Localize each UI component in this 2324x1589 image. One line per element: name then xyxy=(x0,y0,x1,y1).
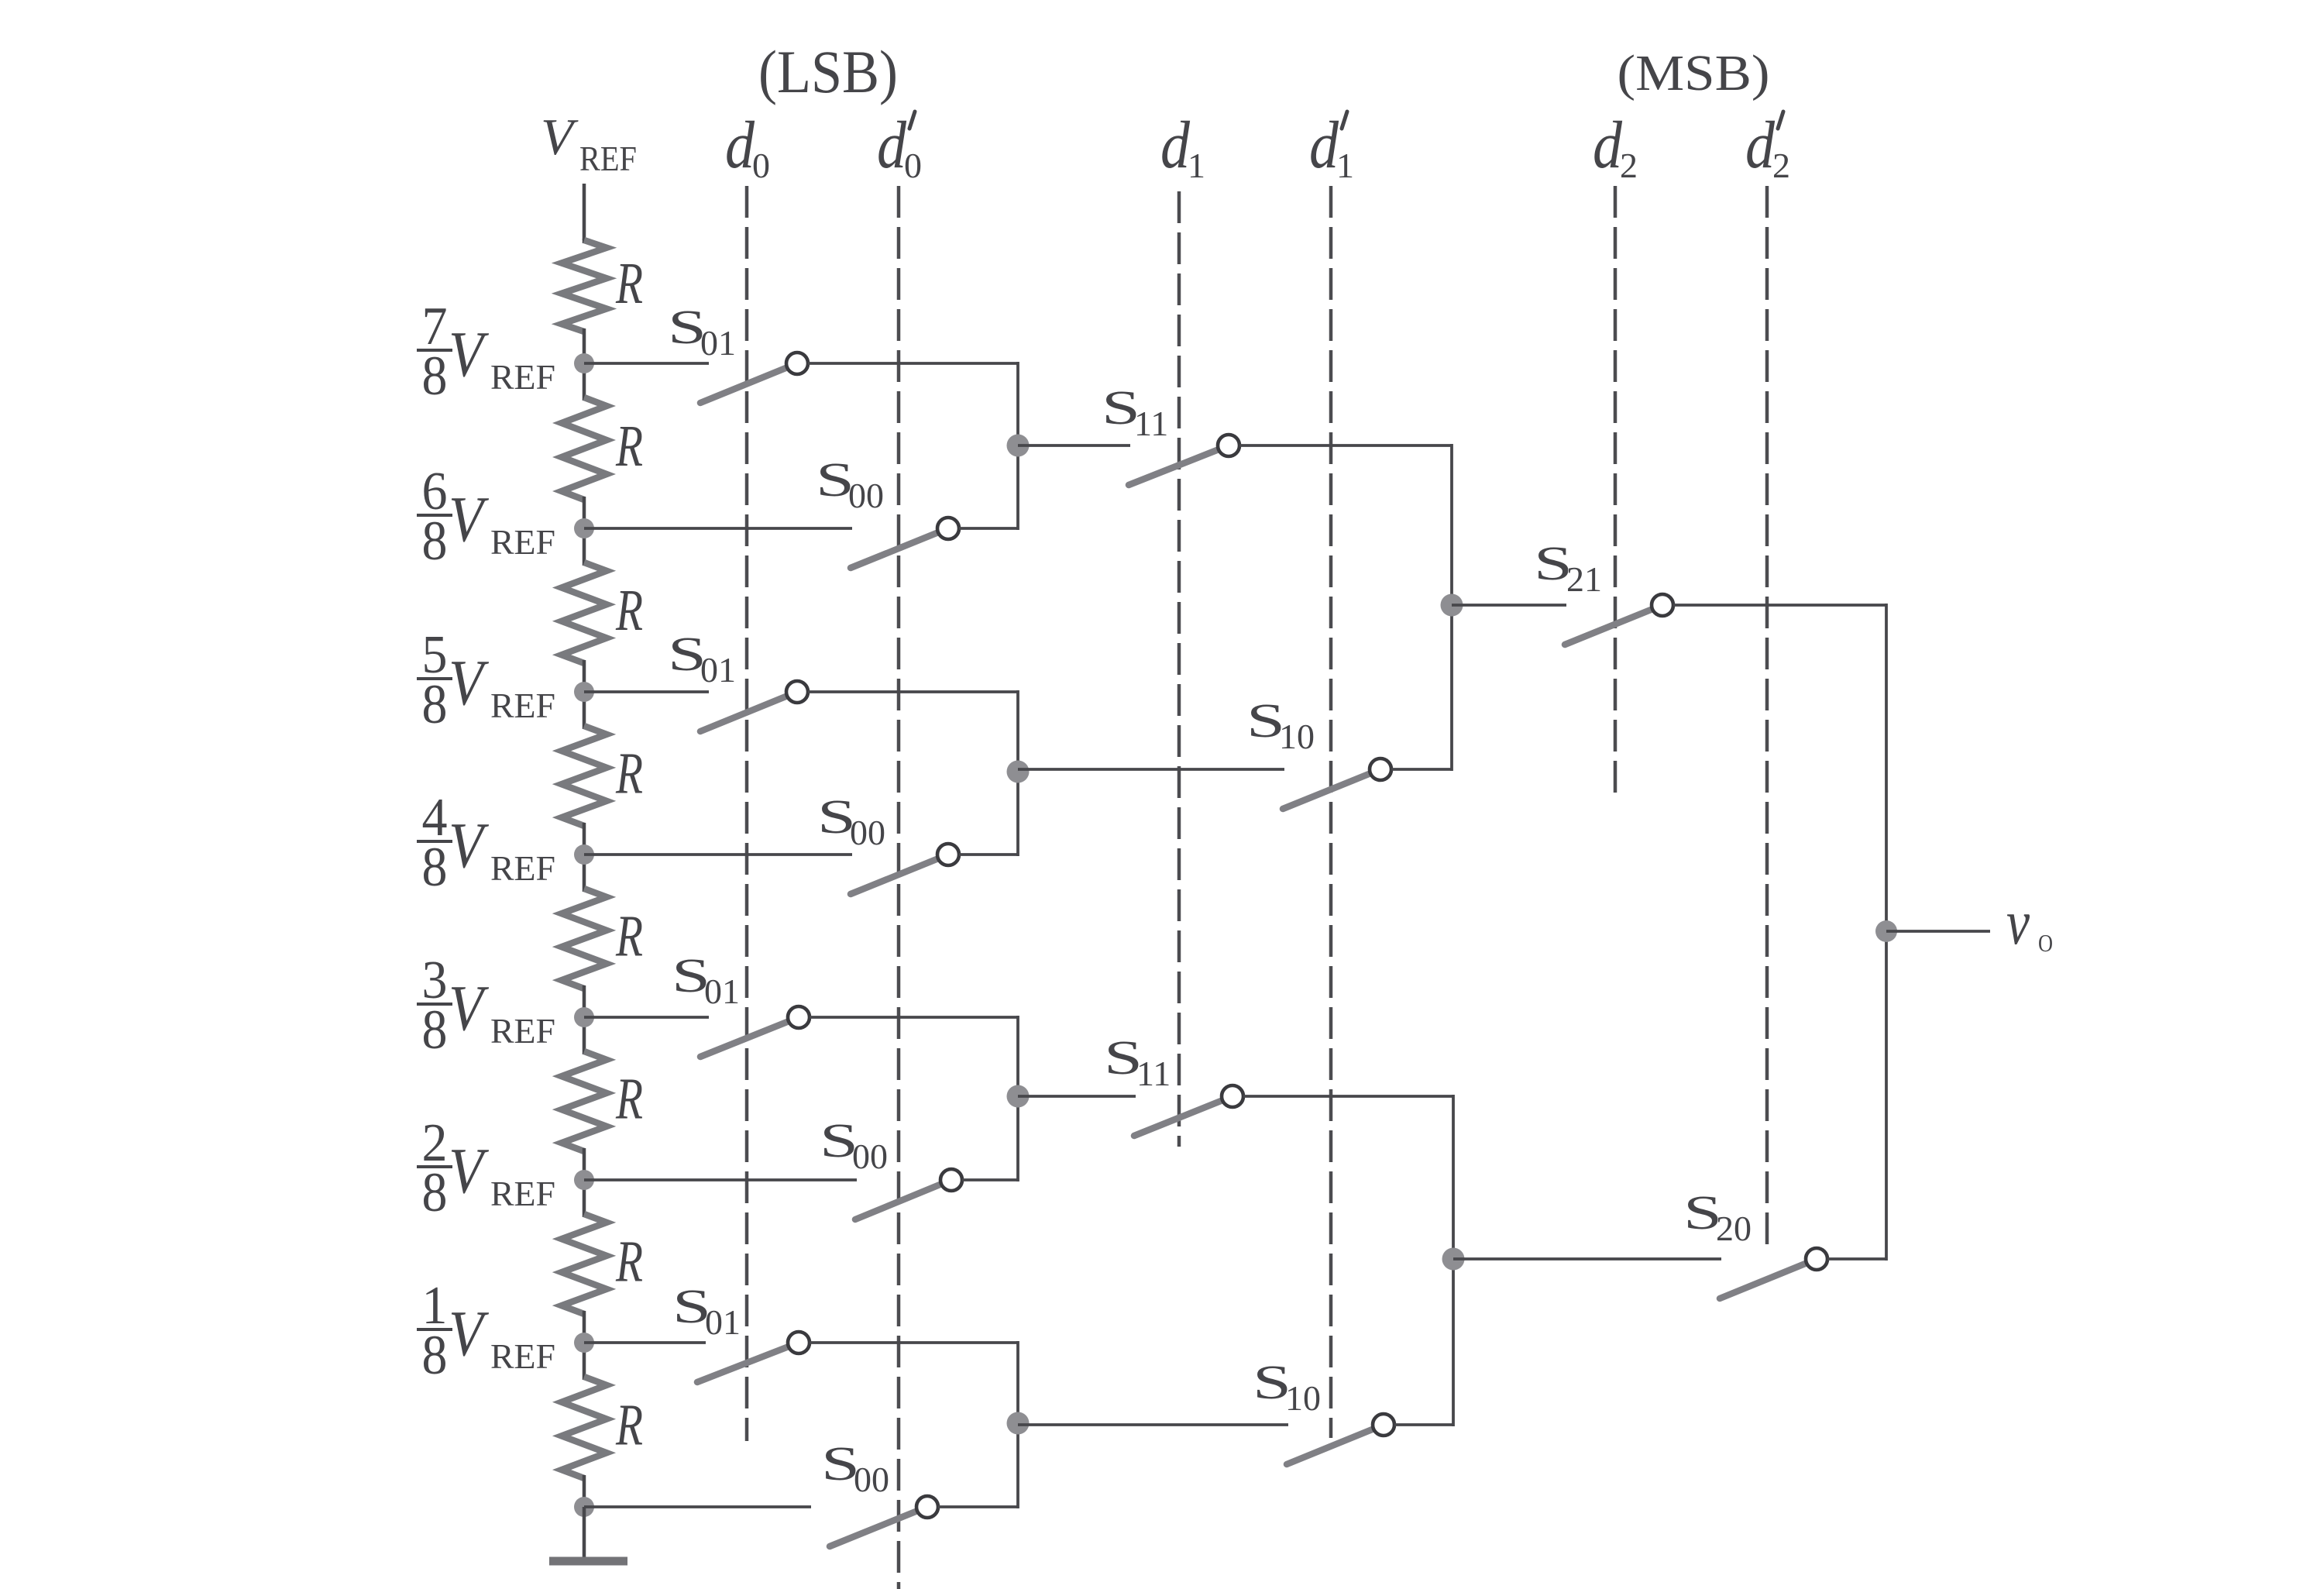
wire S11 output (top) xyxy=(1239,444,1452,447)
wire pair 4 bus xyxy=(1016,1341,1019,1508)
wire tap to S00 (pair 1) xyxy=(584,527,852,530)
svg-text:8: 8 xyxy=(422,510,448,572)
svg-text:R: R xyxy=(615,1393,643,1458)
switch S20 xyxy=(1720,1264,1806,1298)
wire S00 output (pair 4) xyxy=(938,1505,1018,1508)
svg-text:REF: REF xyxy=(579,139,637,178)
resistor R5 (value R) xyxy=(583,855,586,892)
svg-text:21: 21 xyxy=(1566,559,1602,599)
svg-text:8: 8 xyxy=(422,1324,448,1386)
wire S10 output (bottom) xyxy=(1394,1423,1453,1426)
svg-text:REF: REF xyxy=(490,1011,555,1051)
svg-text:11: 11 xyxy=(1134,404,1168,443)
wire S21 output xyxy=(1673,604,1886,607)
wire S20 output xyxy=(1827,1257,1886,1261)
wire stage1 top bus xyxy=(1450,444,1453,771)
switch S01 (pair 3) xyxy=(700,1022,788,1057)
svg-text:V: V xyxy=(449,647,490,719)
switch S10 (bottom) xyxy=(1287,1429,1373,1464)
svg-text:8: 8 xyxy=(422,345,448,407)
switch S21 xyxy=(1565,610,1652,645)
switch S01 (pair 1) xyxy=(700,368,786,403)
wire tap 7/8 to S01 (pair 1) xyxy=(584,362,709,365)
svg-text:10: 10 xyxy=(1285,1378,1321,1418)
control line d0' (dashed) xyxy=(897,186,901,1589)
wire pair1 junction to S11 (top) xyxy=(1018,444,1130,447)
node 1/8 V_REF tap xyxy=(574,1333,594,1353)
svg-text:V: V xyxy=(449,318,490,390)
svg-text:00: 00 xyxy=(852,1137,888,1176)
control line d1' (dashed) xyxy=(1329,186,1333,1438)
svg-text:v: v xyxy=(2006,886,2030,958)
resistor R1 (value R) xyxy=(583,239,586,243)
svg-text:01: 01 xyxy=(700,323,736,363)
switch S10 (top) xyxy=(1283,774,1370,809)
wire S01 output (pair 2) xyxy=(808,690,1018,693)
node 7/8 V_REF tap xyxy=(574,353,594,373)
node 5/8 V_REF tap xyxy=(574,682,594,702)
resistor R4 (value R) xyxy=(583,692,586,729)
wire stage1 bottom bus xyxy=(1452,1095,1455,1426)
svg-text:d: d xyxy=(1160,107,1190,182)
wire tap 1/8 to S01 (pair 4) xyxy=(584,1341,706,1344)
svg-text:20: 20 xyxy=(1716,1209,1752,1248)
wire V_REF feed xyxy=(583,184,586,240)
junction stage1 top xyxy=(1441,594,1463,617)
svg-text:01: 01 xyxy=(700,650,736,690)
switch S00 (pair 4) xyxy=(830,1512,916,1546)
control line d1 (dashed) xyxy=(1177,191,1181,1147)
control line d2' (dashed) xyxy=(1765,186,1769,1249)
switch S00 (pair 2) xyxy=(851,859,937,894)
svg-text:REF: REF xyxy=(490,1336,555,1376)
svg-text:11: 11 xyxy=(1136,1054,1171,1093)
wire stage1 bottom junction to S20 xyxy=(1453,1257,1721,1261)
wire S01 output (pair 3) xyxy=(810,1016,1018,1019)
svg-text:d: d xyxy=(725,107,755,182)
junction pair 1 xyxy=(1007,435,1030,457)
wire tap 3/8 to S01 (pair 3) xyxy=(584,1016,709,1019)
switch S01 (pair 2) xyxy=(700,696,786,731)
junction pair 3 xyxy=(1007,1085,1030,1108)
svg-text:V: V xyxy=(449,1135,490,1207)
node 3/8 V_REF tap xyxy=(574,1007,594,1027)
svg-text:V: V xyxy=(541,108,579,166)
svg-text:V: V xyxy=(449,810,490,882)
control line d0 (dashed) xyxy=(745,186,749,1441)
junction stage1 bottom xyxy=(1442,1248,1465,1271)
wire pair2 junction to S10 (top) xyxy=(1018,768,1284,771)
svg-text:R: R xyxy=(615,1067,643,1132)
node 2/8 V_REF tap xyxy=(574,1170,594,1190)
svg-text:REF: REF xyxy=(490,686,555,725)
wire pair 1 bus xyxy=(1016,362,1019,530)
svg-text:REF: REF xyxy=(490,522,555,562)
svg-text:V: V xyxy=(449,972,490,1044)
resistor R2 (value R) xyxy=(583,363,586,401)
svg-text:R: R xyxy=(615,251,643,316)
svg-text:d: d xyxy=(1593,107,1622,182)
junction pair 2 xyxy=(1007,761,1030,783)
wire tap 5/8 to S01 (pair 2) xyxy=(584,690,709,693)
svg-text:01: 01 xyxy=(704,972,740,1011)
svg-text:d: d xyxy=(1745,107,1775,182)
svg-text:8: 8 xyxy=(422,836,448,898)
wire pair3 junction to S11 (bottom) xyxy=(1018,1095,1136,1098)
svg-text:R: R xyxy=(615,578,643,643)
svg-text:2: 2 xyxy=(1620,146,1638,185)
svg-text:8: 8 xyxy=(422,1161,448,1223)
svg-text:d: d xyxy=(1309,107,1339,182)
wire S11 output (bottom) xyxy=(1243,1095,1453,1098)
junction pair 4 xyxy=(1007,1412,1030,1435)
svg-text:O: O xyxy=(2038,929,2053,957)
wire tap to S00 (pair 2) xyxy=(584,853,852,856)
wire pair 3 bus xyxy=(1016,1016,1019,1181)
svg-text:8: 8 xyxy=(422,673,448,735)
svg-text:0: 0 xyxy=(752,146,770,185)
svg-text:REF: REF xyxy=(490,1174,555,1213)
wire pair 2 bus xyxy=(1016,690,1019,856)
resistor R3 (value R) xyxy=(583,528,586,566)
svg-text:2: 2 xyxy=(1772,146,1790,185)
svg-text:R: R xyxy=(615,741,643,807)
svg-text:(MSB): (MSB) xyxy=(1618,45,1770,101)
wire S10 output (top) xyxy=(1391,768,1452,771)
ground xyxy=(583,1507,586,1559)
wire vO stub xyxy=(1886,930,1990,933)
svg-text:REF: REF xyxy=(490,357,555,397)
wire tap to S00 (pair 3) xyxy=(584,1178,857,1181)
node vO xyxy=(1875,920,1897,942)
svg-text:V: V xyxy=(449,483,490,555)
wire S01 output (pair 1) xyxy=(808,362,1018,365)
svg-text:10: 10 xyxy=(1279,717,1315,756)
svg-text:R: R xyxy=(615,414,643,479)
svg-text:8: 8 xyxy=(422,999,448,1061)
resistor R6 (value R) xyxy=(583,1017,586,1054)
svg-text:R: R xyxy=(615,1230,643,1295)
switch S11 (bottom) xyxy=(1134,1101,1222,1136)
control line d2 (dashed) xyxy=(1614,186,1618,796)
svg-text:00: 00 xyxy=(850,813,885,852)
svg-text:(LSB): (LSB) xyxy=(758,38,898,105)
switch S00 (pair 3) xyxy=(855,1185,940,1219)
wire stage1 top junction to S21 xyxy=(1452,604,1566,607)
wire output bus xyxy=(1885,604,1888,1261)
svg-text:0: 0 xyxy=(904,146,922,185)
svg-text:00: 00 xyxy=(854,1460,889,1499)
wire tap to S00 (pair 4) xyxy=(584,1505,811,1508)
node bottom tap (0V) xyxy=(574,1497,594,1517)
node 6/8 V_REF tap xyxy=(574,518,594,538)
wire S01 output (pair 4) xyxy=(810,1341,1018,1344)
svg-text:1: 1 xyxy=(1336,146,1354,185)
svg-text:1: 1 xyxy=(1188,146,1205,185)
wire S00 output (pair 3) xyxy=(962,1178,1018,1181)
resistor R7 (value R) xyxy=(583,1180,586,1217)
svg-text:00: 00 xyxy=(848,476,884,515)
node 4/8 V_REF tap xyxy=(574,844,594,865)
svg-text:REF: REF xyxy=(490,848,555,888)
switch S01 (pair 4) xyxy=(697,1347,788,1382)
wire S00 output (pair 1) xyxy=(959,527,1018,530)
switch S00 (pair 1) xyxy=(851,533,937,568)
svg-text:R: R xyxy=(615,904,643,969)
switch S11 (top) xyxy=(1129,450,1218,486)
wire S00 output (pair 2) xyxy=(959,853,1018,856)
svg-text:01: 01 xyxy=(705,1302,741,1342)
svg-text:V: V xyxy=(449,1298,490,1370)
svg-text:d: d xyxy=(877,107,906,182)
wire pair4 junction to S10 (bottom) xyxy=(1018,1423,1288,1426)
resistor R8 (value R) xyxy=(583,1343,586,1380)
